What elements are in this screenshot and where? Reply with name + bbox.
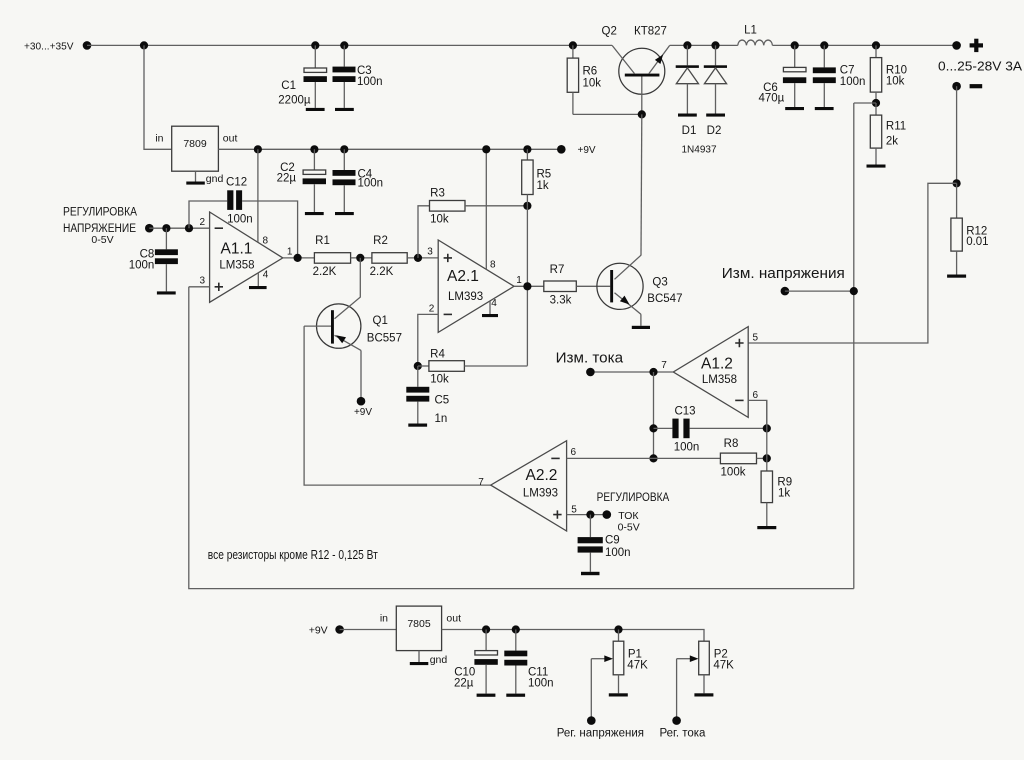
node R12 top <box>953 179 961 187</box>
node C13 right <box>763 424 771 432</box>
wire sense to A1.2 pin5 <box>748 183 956 343</box>
regulator U1 7809 <box>155 126 237 171</box>
wire R2 to A2.1 pin3 <box>407 257 438 259</box>
svg-text:BC557: BC557 <box>367 333 402 345</box>
svg-text:2.2K: 2.2K <box>370 266 394 278</box>
svg-text:Изм. напряжения: Изм. напряжения <box>722 266 845 282</box>
wire voltage sense <box>785 290 854 292</box>
transistor Q3 BC547 <box>597 255 683 325</box>
terminal current adjust <box>672 716 681 725</box>
node R8 right <box>763 454 771 462</box>
svg-text:2k: 2k <box>886 135 898 147</box>
svg-text:in: in <box>380 612 388 624</box>
transistor Q1 BC557 <box>304 258 402 401</box>
wire Q2 base down to Q3 collector <box>640 114 643 255</box>
svg-text:R6: R6 <box>583 65 598 77</box>
svg-text:10k: 10k <box>430 374 449 386</box>
svg-text:100n: 100n <box>129 259 155 271</box>
node R8 left <box>649 454 657 462</box>
ground under C8 <box>157 291 176 294</box>
node A2.1 pin3 <box>414 254 422 262</box>
svg-text:10k: 10k <box>430 214 449 226</box>
ground under R9 <box>757 526 776 529</box>
svg-text:47K: 47K <box>627 659 648 671</box>
node 7809 input tap <box>140 41 148 49</box>
svg-text:C12: C12 <box>226 177 247 189</box>
ground under P1 <box>609 693 628 696</box>
svg-text:100n: 100n <box>840 76 866 88</box>
resistor R1 2.2K <box>313 235 351 278</box>
svg-text:100n: 100n <box>357 76 383 88</box>
minus symbol <box>970 84 983 88</box>
terminal +9V <box>557 145 566 154</box>
svg-text:3: 3 <box>427 247 433 258</box>
wire +5V rail <box>442 630 704 642</box>
inductor L1 <box>738 24 773 45</box>
svg-text:Q3: Q3 <box>652 277 667 289</box>
wire pin3 input <box>189 286 210 288</box>
svg-text:7805: 7805 <box>407 618 431 630</box>
wire top rail right <box>670 44 738 46</box>
pin gnd 7809 <box>196 171 224 185</box>
capacitor C13 100n <box>654 406 767 454</box>
ground under C10 <box>477 694 496 697</box>
svg-text:47K: 47K <box>713 659 734 671</box>
input terminal dot <box>83 41 92 50</box>
ground under C7 <box>815 107 834 110</box>
svg-text:LM358: LM358 <box>702 374 737 386</box>
wire pin4 to ground <box>489 301 491 314</box>
terminal +9V Q1 emitter <box>357 397 366 406</box>
resistor R3 10k <box>418 188 527 258</box>
resistor R5 1k <box>522 145 552 194</box>
svg-text:100n: 100n <box>605 547 631 559</box>
capacitor C9 100n <box>578 515 631 572</box>
svg-text:0...25-28V 3A: 0...25-28V 3A <box>938 58 1022 73</box>
node 9V at A1.1 pin8 <box>254 145 262 153</box>
svg-text:R1: R1 <box>315 235 330 247</box>
svg-text:R11: R11 <box>886 121 906 133</box>
svg-text:0-5V: 0-5V <box>618 521 640 533</box>
ground under R11 <box>867 165 886 168</box>
ground under C5 <box>408 424 427 427</box>
node A1.2 output <box>649 368 657 376</box>
capacitor C3 100n <box>333 41 383 108</box>
svg-text:1k: 1k <box>537 180 549 192</box>
svg-text:A1.2: A1.2 <box>701 355 733 372</box>
capacitor C7 100n <box>813 41 866 107</box>
wire pin8 to +9V <box>485 149 487 269</box>
svg-text:1k: 1k <box>778 488 790 500</box>
svg-text:РЕГУЛИРОВКА: РЕГУЛИРОВКА <box>597 492 670 504</box>
node R10-R11 divider <box>872 99 880 107</box>
wire A2.2 pin5 <box>567 514 607 516</box>
wire R5 down through A2.1 output to R4 <box>526 195 528 366</box>
svg-text:LM393: LM393 <box>523 488 558 500</box>
svg-text:1: 1 <box>287 247 293 258</box>
wire divider tap left <box>854 102 876 104</box>
wire R1-R2 <box>351 257 372 259</box>
svg-text:5: 5 <box>753 333 759 344</box>
svg-text:+30...+35V: +30...+35V <box>24 40 74 52</box>
ground under C2 <box>305 212 324 215</box>
svg-text:R4: R4 <box>430 348 445 360</box>
ground under D2 <box>706 114 725 117</box>
svg-text:6: 6 <box>571 447 577 458</box>
svg-text:R8: R8 <box>724 438 739 450</box>
svg-text:R5: R5 <box>537 169 552 181</box>
svg-text:100n: 100n <box>358 178 384 190</box>
resistor R11 2k <box>870 103 906 165</box>
svg-text:470µ: 470µ <box>758 93 784 105</box>
svg-text:10k: 10k <box>886 76 905 88</box>
node C12 left <box>185 224 193 232</box>
wire Q1 base to A2.2 output <box>304 326 491 485</box>
svg-text:L1: L1 <box>744 24 757 36</box>
svg-text:все резисторы кроме R12 - 0,12: все резисторы кроме R12 - 0,125 Вт <box>208 547 378 562</box>
svg-text:10k: 10k <box>583 77 602 89</box>
terminal current sense <box>586 368 595 377</box>
wire to A1.1 pin2 <box>149 227 209 229</box>
svg-text:A2.2: A2.2 <box>526 467 558 484</box>
node R3-R5 <box>523 202 531 210</box>
wire feedback vertical right <box>853 103 855 589</box>
diode D2 1N4937 <box>704 41 727 137</box>
svg-text:C9: C9 <box>605 535 620 547</box>
ground under C3 <box>335 108 354 111</box>
terminal current-set input <box>603 510 612 519</box>
svg-text:6: 6 <box>753 390 759 401</box>
wire down to 7809 in <box>144 45 172 149</box>
potentiometer P1 47K <box>591 625 648 720</box>
svg-text:100n: 100n <box>227 214 253 226</box>
terminal minus output <box>952 82 961 91</box>
svg-text:ТОК: ТОК <box>618 510 639 522</box>
svg-text:22µ: 22µ <box>277 172 297 184</box>
node A1.1 output <box>294 254 302 262</box>
svg-text:3.3k: 3.3k <box>550 294 572 306</box>
terminal +9V bottom <box>335 625 344 634</box>
wire to 7805 in <box>340 629 397 631</box>
plus symbol <box>970 39 983 52</box>
svg-text:R7: R7 <box>550 264 565 276</box>
wire A1.1 pin3 feedback loop <box>189 287 854 589</box>
svg-text:Q2: Q2 <box>602 25 617 37</box>
wire top rail after L1 <box>772 44 956 46</box>
svg-text:5: 5 <box>571 505 577 516</box>
svg-text:4: 4 <box>491 298 497 309</box>
comparator A2.2 LM393 <box>491 441 567 531</box>
ground under C1 <box>306 108 325 111</box>
wire +9V rail <box>218 148 561 150</box>
svg-text:R3: R3 <box>430 188 445 200</box>
resistor R4 10k <box>418 348 528 385</box>
svg-text:22µ: 22µ <box>454 677 474 689</box>
svg-text:Q1: Q1 <box>373 315 388 327</box>
svg-text:out: out <box>223 132 238 144</box>
svg-text:8: 8 <box>490 259 496 270</box>
svg-text:out: out <box>446 612 461 624</box>
ground under Q3 emitter <box>632 326 650 329</box>
node R1-R2 Q1 collector <box>356 254 364 262</box>
svg-text:gnd: gnd <box>206 173 224 185</box>
svg-text:0-5V: 0-5V <box>91 234 113 246</box>
capacitor C10 22u electrolytic <box>454 625 498 693</box>
diode D1 1N4937 <box>676 41 699 137</box>
svg-text:7: 7 <box>478 477 484 488</box>
node C9 <box>586 510 594 518</box>
svg-text:+9V: +9V <box>309 624 328 636</box>
svg-text:Изм. тока: Изм. тока <box>556 351 624 367</box>
ground A2.1 pin4 <box>482 314 498 317</box>
svg-text:1N4937: 1N4937 <box>681 145 716 156</box>
svg-text:LM393: LM393 <box>448 291 483 303</box>
resistor R8 100k <box>654 438 767 479</box>
svg-text:7809: 7809 <box>183 138 207 150</box>
node A2.1 pin8 9V <box>482 145 490 153</box>
svg-text:0.01: 0.01 <box>966 236 988 248</box>
svg-text:A2.1: A2.1 <box>447 268 479 285</box>
wire pin2 <box>418 314 438 366</box>
transistor Q2 KT827 <box>602 25 670 114</box>
svg-text:8: 8 <box>263 235 269 246</box>
comparator A2.1 LM393 <box>438 240 514 332</box>
svg-text:7: 7 <box>661 360 667 371</box>
node C13 left <box>649 424 657 432</box>
ground under C11 <box>506 694 525 697</box>
terminal plus output <box>952 41 961 50</box>
wire pin8 to +9V <box>257 149 259 242</box>
svg-text:100n: 100n <box>674 442 700 454</box>
svg-text:2: 2 <box>200 217 206 228</box>
svg-text:100k: 100k <box>721 467 746 479</box>
wire A1.2 output to current sense <box>590 371 673 373</box>
svg-text:2200µ: 2200µ <box>278 95 311 107</box>
ground under 7805 <box>410 662 429 665</box>
potentiometer P2 47K <box>677 641 735 720</box>
svg-text:LM358: LM358 <box>219 260 254 272</box>
svg-text:Рег. тока: Рег. тока <box>660 728 707 740</box>
svg-text:C13: C13 <box>674 406 695 418</box>
svg-text:D2: D2 <box>707 125 722 137</box>
svg-text:Рег. напряжения: Рег. напряжения <box>557 728 644 740</box>
capacitor C5 1n <box>406 366 449 425</box>
ground under R12 <box>947 275 966 278</box>
node Q2 base <box>638 110 646 118</box>
label РЕГУЛИРОВКА НАПРЯЖЕНИЕ 0-5V <box>63 207 137 246</box>
wire A2.1 output <box>514 285 544 287</box>
ground under 7809 <box>186 182 205 185</box>
resistor R2 2.2K <box>370 235 408 278</box>
svg-text:4: 4 <box>263 270 269 281</box>
svg-text:gnd: gnd <box>430 654 448 666</box>
terminal voltage adjust <box>587 716 596 725</box>
wire A1.1 output <box>283 257 315 259</box>
svg-text:РЕГУЛИРОВКА: РЕГУЛИРОВКА <box>63 207 137 219</box>
ground under C4 <box>335 212 354 215</box>
svg-text:BC547: BC547 <box>647 293 682 305</box>
ground under C6 <box>785 107 804 110</box>
svg-text:1n: 1n <box>435 413 448 425</box>
wire A1.2 pin6 <box>748 400 767 428</box>
node C8 <box>162 224 170 232</box>
label РЕГУЛИРОВКА ТОК 0-5V <box>597 492 670 533</box>
capacitor C4 100n <box>333 145 384 212</box>
wire A2.2 pin6 <box>567 457 654 459</box>
svg-text:+9V: +9V <box>578 145 596 156</box>
svg-text:A1.1: A1.1 <box>221 241 253 258</box>
resistor R9 1k <box>761 471 792 526</box>
svg-text:R2: R2 <box>373 235 388 247</box>
svg-text:100n: 100n <box>528 677 554 689</box>
wire R9 vertical <box>766 400 768 471</box>
wire top rail left <box>87 44 612 46</box>
node R4-C5 <box>414 362 422 370</box>
resistor R10 10k <box>870 41 907 103</box>
capacitor C1 2200u electrolytic <box>278 41 327 108</box>
svg-text:C1: C1 <box>281 80 296 92</box>
op-amp A1.1 LM358 <box>210 212 283 302</box>
terminal voltage-set input <box>145 224 154 233</box>
ground A1.1 pin4 <box>249 286 267 289</box>
resistor R7 3.3k <box>544 264 577 306</box>
svg-text:1: 1 <box>516 275 522 286</box>
wire R7 to Q3 base <box>576 285 610 287</box>
op-amp A1.2 LM358 <box>673 327 748 418</box>
wire R6 bottom to Q2 base <box>573 113 642 115</box>
regulator U2 7805 <box>380 606 461 651</box>
resistor R6 10k <box>567 41 601 114</box>
svg-text:in: in <box>155 132 163 144</box>
ground under P2 <box>694 693 713 696</box>
svg-text:C7: C7 <box>840 65 855 77</box>
capacitor C11 100n <box>504 625 553 693</box>
svg-text:2.2K: 2.2K <box>313 266 337 278</box>
node A2.1 output <box>523 282 531 290</box>
capacitor C6 470u electrolytic <box>758 41 806 107</box>
svg-text:+9V: +9V <box>354 407 372 418</box>
svg-text:D1: D1 <box>682 125 697 137</box>
svg-text:C5: C5 <box>435 395 450 407</box>
svg-text:2: 2 <box>429 304 435 315</box>
pin gnd 7805 <box>419 651 447 666</box>
wire minus terminal down <box>956 86 958 183</box>
wire pin4 to ground <box>257 273 259 286</box>
svg-text:3: 3 <box>200 275 206 286</box>
terminal voltage sense <box>781 287 790 296</box>
ground under D1 <box>678 114 697 117</box>
capacitor C8 100n <box>129 228 178 291</box>
svg-text:КТ827: КТ827 <box>634 25 667 37</box>
wire output node down <box>653 372 655 458</box>
node voltage sense on feedback <box>850 287 858 295</box>
resistor R12 0.01 shunt <box>951 183 989 274</box>
capacitor C2 22u electrolytic <box>277 145 326 212</box>
capacitor C12 100n feedback <box>189 177 298 258</box>
ground under C9 <box>581 572 600 575</box>
